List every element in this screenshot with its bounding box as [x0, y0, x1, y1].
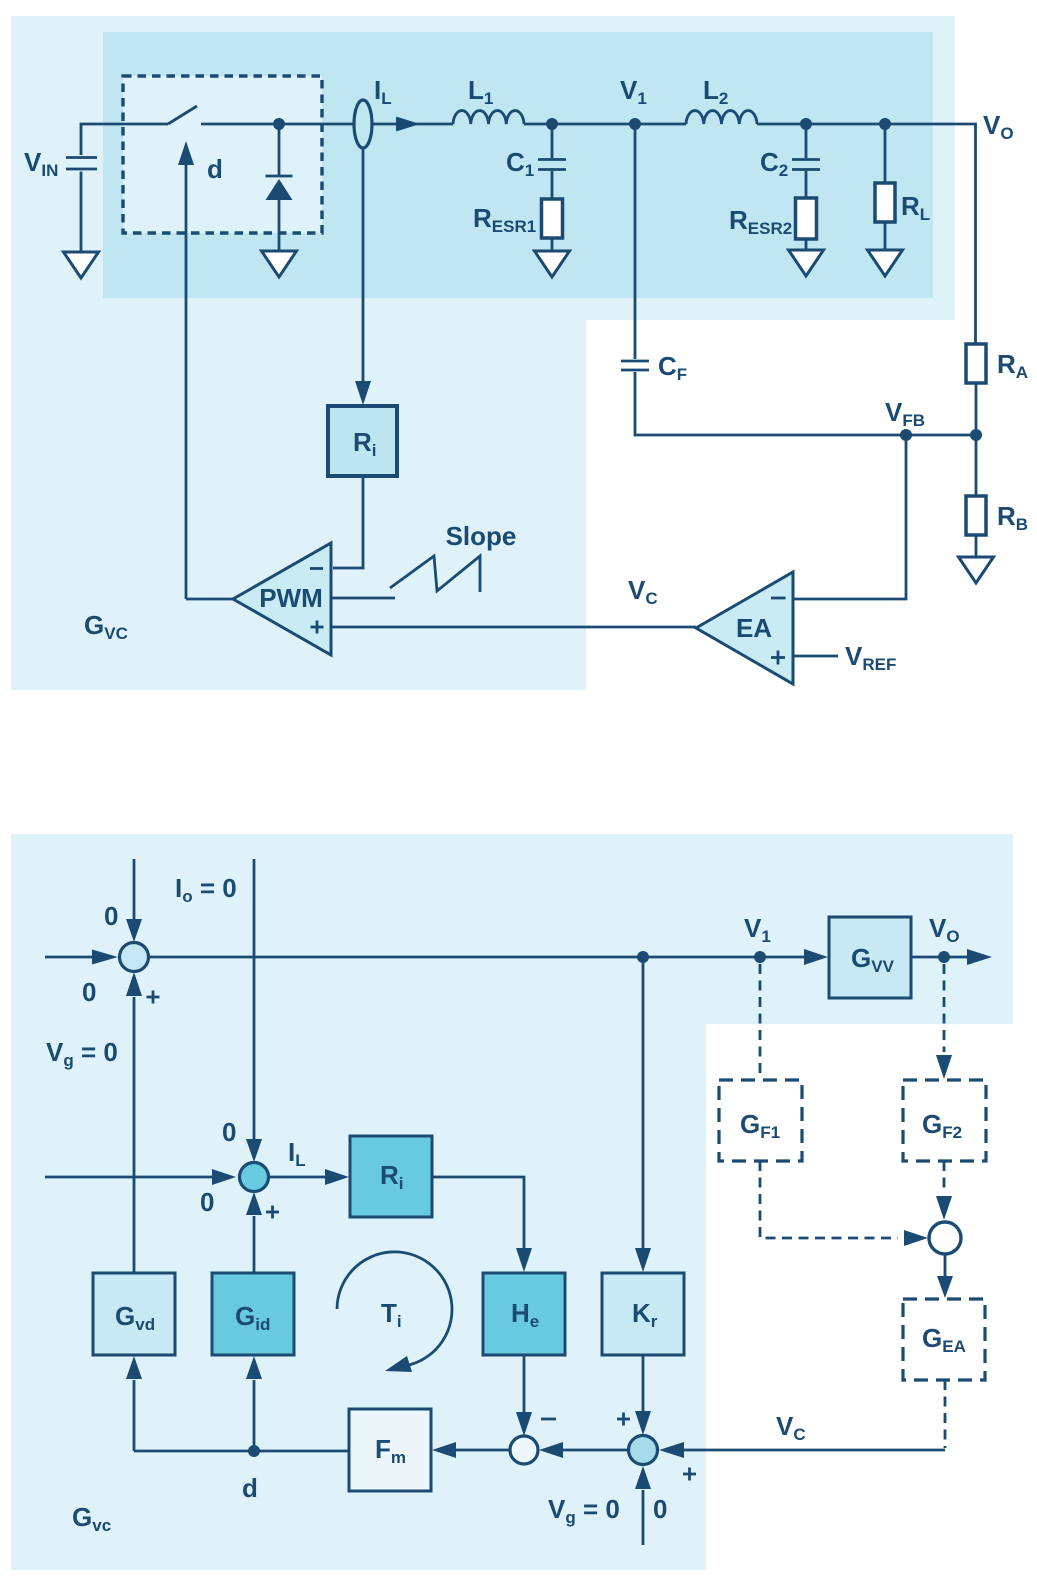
arrow d to Gvd: [126, 1356, 142, 1451]
block Ri: [328, 406, 397, 476]
svg-text:d: d: [242, 1473, 258, 1503]
node V1: [754, 951, 766, 963]
capacitor VIN: [66, 158, 97, 253]
arrow Gvd out to S1: [126, 972, 142, 1274]
arrow IL to Ri: [355, 147, 371, 405]
wire S3 to Fm: [432, 1442, 510, 1458]
resistor RESR2: [796, 198, 817, 250]
wire CF branch: [634, 124, 637, 359]
wire probe to L1: [372, 123, 453, 126]
wire VIN to switch: [81, 124, 168, 155]
arrow into S2 top: [246, 859, 262, 1162]
wire tap to Kr: [635, 963, 651, 1272]
capacitor CF: [621, 361, 976, 435]
ground RL: [868, 250, 903, 276]
wire Ri to PWM: [333, 476, 363, 568]
minus S3: [541, 1418, 556, 1421]
svg-text:PWM: PWM: [259, 583, 323, 613]
node V1: [629, 118, 641, 130]
inductor L1: [453, 111, 524, 124]
plus S4 right: [683, 1468, 696, 1481]
block Gid: [212, 1273, 294, 1355]
svg-text:0: 0: [200, 1187, 214, 1217]
node VFB: [900, 429, 912, 441]
resistor RL: [875, 124, 895, 250]
wire GVV out: [911, 949, 992, 965]
resistor RESR1: [542, 199, 563, 251]
panel top schematic upper: [11, 16, 955, 320]
pin minus EA: [771, 597, 786, 600]
resistor RA: [966, 344, 986, 435]
svg-text:Vg = 0: Vg = 0: [46, 1037, 118, 1070]
plus S2: [266, 1206, 279, 1219]
wire EA plus to VREF: [793, 655, 838, 658]
svg-text:RA: RA: [997, 349, 1028, 382]
wire L1 to VO corner: [524, 124, 976, 344]
dashed wire GEA to VC: [944, 1380, 947, 1448]
wire row1 left: [45, 950, 118, 965]
summing node S1: [120, 943, 149, 972]
switch dashed box: [123, 76, 322, 233]
panel block diagram upper: [11, 834, 1013, 1024]
svg-text:d: d: [207, 154, 223, 184]
slope ramp symbol: [390, 556, 480, 592]
switch blade: [168, 106, 197, 124]
wire PWM ramp input: [331, 597, 395, 600]
plus S1: [147, 991, 160, 1004]
ground VIN: [64, 252, 99, 278]
panel top schematic lower: [11, 16, 586, 690]
arrow 0 into S4 bottom: [635, 1466, 651, 1545]
block GVV: [829, 917, 911, 998]
current probe IL: [354, 100, 372, 148]
block Kr: [602, 1273, 684, 1355]
arrow into GVV: [804, 949, 828, 965]
plus S4 top: [617, 1413, 630, 1426]
node Kr tap: [637, 951, 649, 963]
svg-text:0: 0: [82, 977, 96, 1007]
loop arc Ti: [337, 1252, 452, 1372]
wire Fm to d node: [134, 1450, 349, 1453]
svg-text:VO: VO: [983, 110, 1014, 143]
pin minus PWM: [310, 567, 323, 570]
wire Ri2 to He: [432, 1177, 532, 1272]
arrow S5 to GEA: [937, 1254, 953, 1298]
wire EA minus to VFB: [793, 441, 906, 599]
wire S2 to Ri: [268, 1169, 349, 1185]
panel power stage shading: [103, 32, 933, 298]
summing node S4: [629, 1436, 658, 1465]
svg-text:VREF: VREF: [845, 641, 896, 674]
TOPSCHEMATIC: [24, 75, 1028, 684]
ground RESR2: [789, 250, 824, 276]
ground RESR1: [535, 251, 570, 277]
node RL: [879, 118, 891, 130]
op-amp EA: [696, 572, 793, 684]
svg-text:VC: VC: [776, 1411, 806, 1444]
wire row2 left: [45, 1169, 236, 1185]
dashed wire GF1 to S5: [760, 1161, 928, 1246]
block GF1 dashed: [719, 1080, 802, 1161]
summing node S3: [510, 1436, 538, 1464]
wire VC to PWM plus: [331, 626, 696, 629]
node RA-RB: [970, 429, 982, 441]
svg-text:0: 0: [653, 1494, 667, 1524]
wire PWM apex feedback: [186, 598, 233, 601]
node A: [273, 118, 285, 130]
block Fm: [349, 1409, 431, 1491]
arrow into S1 top: [126, 859, 142, 942]
pin plus PWM: [311, 621, 324, 634]
op-amp PWM: [233, 543, 331, 655]
panel block diagram lower: [11, 834, 706, 1570]
svg-text:RB: RB: [997, 501, 1028, 534]
block Gvd: [93, 1273, 175, 1355]
node L1-C1: [546, 118, 558, 130]
pin plus EA: [771, 651, 785, 665]
svg-text:VC: VC: [628, 575, 658, 608]
arrow d to Gid: [246, 1356, 262, 1451]
svg-text:Slope: Slope: [446, 521, 517, 551]
ground diode: [262, 251, 297, 277]
svg-text:VFB: VFB: [885, 397, 925, 430]
block Ri2: [350, 1136, 432, 1217]
block He: [483, 1273, 565, 1355]
block GEA dashed: [903, 1299, 985, 1380]
svg-text:Vg = 0: Vg = 0: [548, 1494, 620, 1527]
node L2-C2: [800, 118, 812, 130]
resistor RB: [966, 435, 986, 557]
svg-text:0: 0: [104, 901, 118, 931]
arrow Gid out to S2: [246, 1192, 262, 1274]
node d: [248, 1445, 260, 1457]
wire S4 to S3: [539, 1442, 628, 1458]
summing node S5: [929, 1222, 961, 1254]
arrow d: [178, 141, 194, 599]
block GF2 dashed: [903, 1080, 986, 1161]
svg-text:EA: EA: [736, 613, 772, 643]
arrow on wire: [396, 117, 420, 132]
ground RB: [959, 557, 994, 583]
summing node S2: [240, 1163, 269, 1192]
wire switch to node: [201, 123, 355, 126]
node VO: [938, 951, 950, 963]
dashed wire V1 to GF1: [759, 964, 762, 1079]
capacitor C1: [538, 124, 566, 200]
svg-text:0: 0: [222, 1117, 236, 1147]
diode D1: [266, 124, 293, 251]
dashed wire GF2 to S5: [936, 1161, 952, 1220]
arrow Kr to S4: [635, 1355, 651, 1435]
inductor L2: [686, 111, 757, 124]
BOTTOMDIAGRAM: [45, 859, 992, 1545]
dashed wire VO to GF2: [936, 964, 952, 1079]
capacitor C2: [792, 124, 820, 197]
arrow He to S3: [516, 1355, 532, 1436]
svg-text:CF: CF: [658, 351, 687, 384]
wire row1 main: [149, 956, 804, 959]
wire VC to S4: [659, 1442, 945, 1458]
